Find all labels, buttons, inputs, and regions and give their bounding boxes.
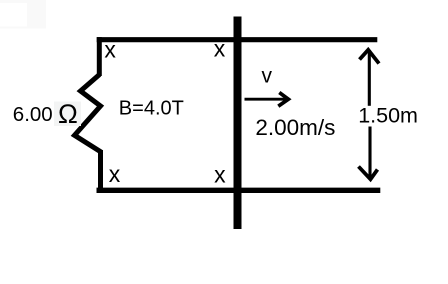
- corner artifact: [0, 0, 46, 29]
- svg-text:6.00: 6.00: [13, 103, 53, 126]
- wire top rail: [97, 37, 378, 42]
- velocity arrowhead: [278, 93, 288, 107]
- dimension arrow shaft upper: [368, 50, 371, 106]
- velocity arrow shaft: [245, 98, 287, 101]
- dimension arrow shaft lower: [368, 127, 371, 180]
- svg-text:Ω: Ω: [58, 99, 78, 129]
- svg-text:B=4.0T: B=4.0T: [119, 98, 184, 120]
- conducting rod (slider bar): [234, 17, 242, 230]
- wire left bottom segment: [98, 150, 103, 190]
- dimension arrowhead top: [360, 50, 380, 64]
- svg-text:x: x: [109, 161, 121, 187]
- wire left top segment: [97, 37, 102, 76]
- dimension arrowhead bottom: [359, 167, 378, 180]
- resistor R1 zigzag: [75, 75, 102, 153]
- svg-text:x: x: [104, 36, 116, 62]
- svg-text:1.50m: 1.50m: [358, 104, 418, 128]
- svg-text:x: x: [214, 36, 226, 62]
- wire bottom rail: [97, 188, 381, 193]
- svg-text:v: v: [262, 65, 273, 88]
- resistor value label 6.00 ohm: [13, 99, 81, 129]
- svg-text:2.00m/s: 2.00m/s: [255, 115, 335, 140]
- svg-text:x: x: [214, 162, 226, 188]
